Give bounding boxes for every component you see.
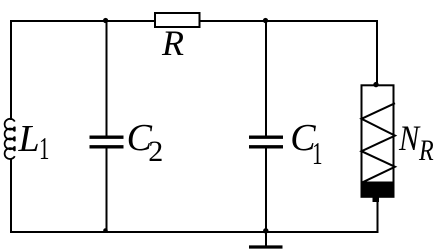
wire NR bottom vertical xyxy=(377,201,379,232)
node junction C2 bottom xyxy=(103,228,108,233)
nonlinear resistor NR box xyxy=(362,85,394,197)
label R xyxy=(162,25,184,61)
node junction C1 top xyxy=(263,18,268,23)
node junction C2 top xyxy=(103,18,108,23)
capacitor C2 plates xyxy=(90,135,124,138)
wire left vertical lower xyxy=(10,159,12,233)
label C1 subscript 1 xyxy=(312,137,323,169)
label NR subscript R xyxy=(419,136,434,166)
wire left vertical upper xyxy=(10,20,12,120)
resistor R box xyxy=(155,13,200,27)
NR zigzag xyxy=(362,103,396,183)
wire C1 branch upper xyxy=(265,21,267,136)
label C2 subscript 2 xyxy=(148,137,163,167)
ground stub xyxy=(265,232,267,246)
label C2 main xyxy=(127,119,152,157)
wire bottom horizontal xyxy=(10,231,379,233)
wire top-right horizontal xyxy=(201,20,379,22)
ground bar xyxy=(249,245,283,248)
label C1 main xyxy=(290,119,315,157)
wire right vertical to NR xyxy=(376,20,378,86)
label NR main xyxy=(399,120,419,156)
node junction NR top xyxy=(373,82,378,87)
inductor L1 coil xyxy=(5,119,15,159)
wire C2 branch lower xyxy=(106,149,108,233)
wire C1 branch lower xyxy=(265,149,267,233)
capacitor C1 plates xyxy=(249,135,283,138)
label L xyxy=(19,120,40,158)
label L subscript 1 xyxy=(39,132,49,164)
node junction C1 bottom / ground node xyxy=(263,228,268,233)
NR bottom tab xyxy=(373,197,380,202)
wire top-left horizontal xyxy=(10,20,154,22)
NR black bottom electrode xyxy=(361,182,395,198)
wire C2 branch upper xyxy=(106,21,108,136)
